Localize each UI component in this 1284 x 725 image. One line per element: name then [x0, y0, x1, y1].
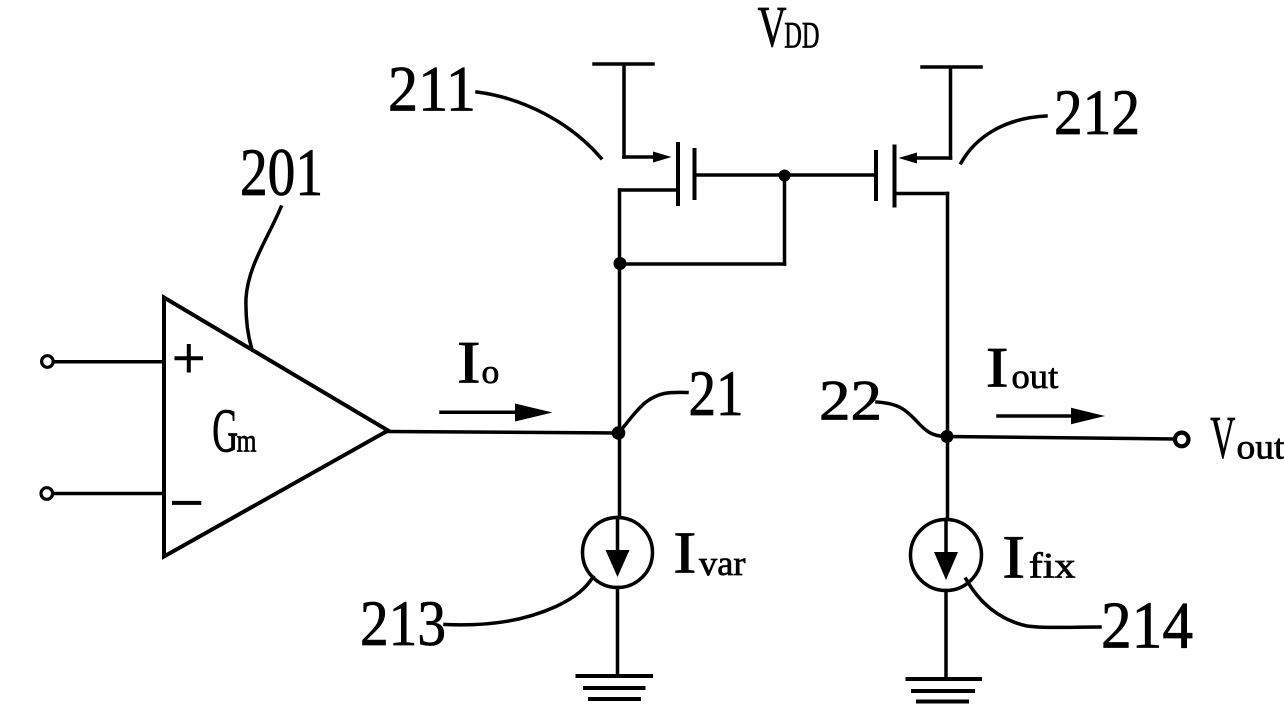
- svg-text:out: out: [1012, 357, 1059, 396]
- label 214: [1101, 589, 1193, 663]
- leader 211: [477, 92, 601, 158]
- label Io: [457, 330, 499, 396]
- power tap VDD left (for M211): [594, 64, 653, 157]
- svg-text:I: I: [986, 336, 1009, 399]
- current source I_var (213) circle: [583, 518, 653, 588]
- ground left: [578, 676, 652, 699]
- current source I_fix (214) circle: [911, 520, 982, 591]
- transistor M212 gate bar: [874, 152, 878, 199]
- leader 212: [961, 116, 1046, 163]
- transistor M211 channel bar: [676, 144, 680, 204]
- op-amp Gm triangle: [164, 298, 388, 557]
- label Ivar: [673, 520, 745, 585]
- wire current source to ground left: [616, 588, 620, 675]
- minus sign: [174, 501, 199, 505]
- leader 22: [877, 402, 945, 437]
- svg-text:out: out: [1237, 428, 1284, 467]
- wire input +: [54, 360, 163, 364]
- wire node 22 to output terminal: [947, 437, 1174, 440]
- svg-text:213: 213: [360, 588, 446, 660]
- wire left column (drain of M211 down to current source): [618, 190, 622, 518]
- wire diode connection bottom: [620, 262, 785, 266]
- svg-text:I: I: [673, 520, 696, 585]
- svg-text:I: I: [1002, 524, 1025, 591]
- wire gate bus M211-M212: [697, 173, 875, 177]
- transistor M211 drain wire: [620, 188, 678, 192]
- wire right column (drain of M212 down to current source): [946, 194, 950, 520]
- label Gm: [212, 396, 256, 465]
- svg-text:DD: DD: [784, 14, 819, 55]
- transistor M212 drain wire: [895, 192, 948, 196]
- ground right: [908, 679, 981, 702]
- label Ifix: [1002, 524, 1076, 591]
- current arrow Iout: [998, 414, 1076, 418]
- wire current source to ground right: [944, 591, 948, 678]
- output terminal Vout: [1175, 433, 1189, 447]
- label 212: [1054, 77, 1140, 149]
- svg-text:var: var: [699, 544, 746, 583]
- label Iout: [986, 336, 1059, 399]
- svg-text:22: 22: [819, 370, 882, 433]
- label 22: [819, 370, 882, 433]
- current arrow Io: [441, 410, 520, 414]
- svg-text:211: 211: [388, 54, 476, 126]
- power tap VDD right (for M212): [922, 67, 981, 158]
- label 201: [240, 134, 323, 210]
- svg-text:201: 201: [240, 134, 323, 210]
- label 211: [388, 54, 476, 126]
- transistor M211 gate bar: [693, 150, 697, 198]
- svg-text:V: V: [758, 0, 787, 59]
- leader 21: [621, 392, 687, 430]
- transistor M212 channel bar: [893, 147, 897, 206]
- svg-text:V: V: [1210, 403, 1235, 470]
- transistor M212 source arrow: [899, 153, 918, 164]
- svg-text:m: m: [237, 424, 257, 460]
- junction dot gate node: [779, 170, 791, 182]
- input terminal + (top): [42, 356, 54, 368]
- node VDD label: [758, 0, 820, 59]
- current source I_var arrow: [616, 518, 620, 571]
- node 21 junction dot: [612, 426, 626, 440]
- svg-text:212: 212: [1054, 77, 1140, 149]
- label 21: [689, 358, 744, 430]
- leader 213: [445, 577, 593, 625]
- svg-text:21: 21: [689, 358, 744, 430]
- svg-text:214: 214: [1101, 589, 1193, 663]
- transistor M211 source wire: [624, 155, 660, 159]
- plus sign: [177, 346, 202, 371]
- svg-text:o: o: [482, 353, 500, 391]
- label 213: [360, 588, 446, 660]
- junction dot drain-gate tie: [614, 257, 627, 270]
- transistor M212 source wire: [912, 156, 951, 160]
- leader 201: [246, 207, 281, 348]
- wire diode connection vertical right: [783, 176, 787, 265]
- svg-text:fix: fix: [1029, 546, 1076, 586]
- input terminal - (bottom): [41, 488, 53, 500]
- transistor M211 source arrow: [653, 152, 672, 163]
- current source I_fix arrow: [944, 520, 948, 573]
- svg-text:G: G: [212, 396, 238, 465]
- svg-text:I: I: [457, 330, 481, 396]
- wire input -: [53, 492, 162, 496]
- label Vout: [1210, 403, 1284, 470]
- node 22 junction dot: [941, 430, 954, 443]
- wire Gm output to node 21: [388, 432, 620, 434]
- leader 214: [966, 579, 1100, 627]
